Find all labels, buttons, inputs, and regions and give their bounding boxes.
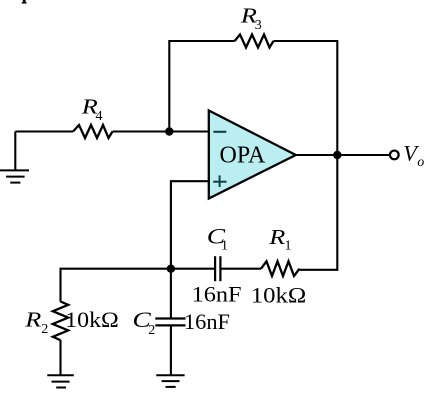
node A: inverting input junction [165, 127, 173, 135]
wire: feedback top-right across and down to output node [274, 41, 338, 155]
op-amp U1 (OPA) triangle [209, 111, 296, 199]
wire: op-amp output to terminal [296, 154, 389, 156]
stray glyph fragment top-left (cut-off character) [22, 0, 27, 4]
output terminal circle [390, 151, 399, 160]
resistor R4 [73, 125, 113, 138]
wire: input from ground stub to R4 [15, 130, 73, 132]
svg-text:10kΩ: 10kΩ [251, 283, 307, 308]
wire: bottom node down to C2 top plate [170, 269, 172, 318]
wire: left input vertical down to ground [14, 132, 16, 171]
svg-text:10kΩ: 10kΩ [65, 307, 119, 332]
svg-text:16nF: 16nF [192, 281, 242, 306]
capacitor C1 [215, 256, 220, 281]
node B: output junction [333, 151, 341, 159]
wire: feedback top-left vertical from inverting node up and across to R3 [169, 41, 234, 132]
svg-text:16nF: 16nF [184, 309, 230, 334]
svg-text:1: 1 [285, 238, 292, 253]
wire: non-inverting input to bottom node [171, 181, 209, 269]
wire: C2 bottom plate to ground [170, 326, 172, 374]
svg-text:R: R [268, 227, 286, 250]
ground (under R2) [47, 375, 74, 387]
wire: right vertical from output node down to bottom network corner [300, 155, 338, 270]
ground (under C2) [156, 375, 184, 387]
wire: bottom node to C1 left plate [171, 268, 214, 270]
capacitor C2 [155, 319, 185, 326]
op-amp minus input marker [213, 131, 226, 133]
wire: R4 to inverting input of op-amp [113, 130, 210, 132]
svg-text:R: R [24, 309, 42, 332]
resistor R3 [235, 35, 274, 48]
wire: R2 to ground [59, 340, 61, 375]
ground (input, left) [0, 170, 29, 182]
wire: C1 right plate to R1 [221, 268, 261, 270]
wire: bottom node left to R2 corner and down [61, 269, 171, 302]
svg-text:4: 4 [96, 109, 103, 124]
svg-text:OPA: OPA [220, 142, 266, 168]
svg-text:2: 2 [41, 322, 48, 337]
svg-text:1: 1 [221, 238, 228, 253]
svg-text:3: 3 [255, 18, 262, 33]
resistor R2 (vertical) [53, 302, 68, 341]
svg-text:o: o [417, 155, 424, 170]
svg-text:2: 2 [148, 323, 155, 338]
node C: bottom junction [167, 265, 175, 273]
resistor R1 [261, 261, 300, 276]
op-amp plus input marker [213, 175, 226, 187]
